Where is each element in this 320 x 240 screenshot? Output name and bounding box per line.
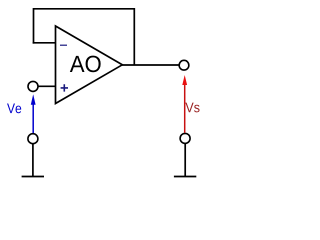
- wire output: [122, 64, 180, 66]
- ground left stem: [32, 144, 34, 177]
- label Vs: [185, 103, 199, 113]
- minus sign inverting input: [60, 45, 67, 46]
- voltage arrow Ve head: [31, 94, 36, 105]
- terminal output Vs: [179, 60, 189, 70]
- op-amp AO triangle: [56, 26, 123, 104]
- label Ve: [7, 103, 21, 113]
- wire inverting input: [33, 42, 57, 44]
- wire feedback top: [34, 8, 135, 10]
- op-amp label AO: [70, 56, 101, 73]
- wire feedback left vertical: [33, 8, 35, 44]
- ground left bar: [22, 176, 44, 178]
- voltage arrow Vs head: [182, 75, 187, 85]
- ground right bar: [174, 176, 196, 178]
- wire feedback right vertical: [133, 8, 135, 65]
- terminal bottom right: [180, 133, 190, 143]
- ground right stem: [184, 144, 186, 177]
- voltage arrow Vs shaft: [184, 84, 186, 133]
- terminal input Ve: [28, 81, 38, 91]
- wire non-inverting input: [38, 85, 56, 87]
- voltage arrow Ve shaft: [32, 104, 34, 133]
- plus sign non-inverting input: [61, 84, 68, 91]
- terminal bottom left: [28, 134, 38, 144]
